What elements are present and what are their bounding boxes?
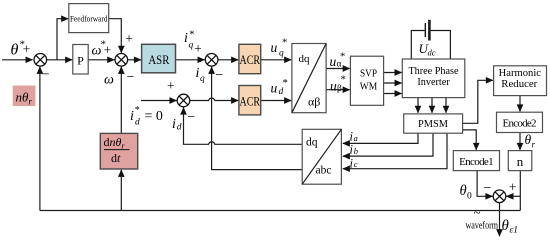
- svg-text:i: i: [184, 31, 188, 46]
- svg-text:ACR: ACR: [240, 93, 261, 108]
- svg-text:q: q: [189, 41, 194, 51]
- svg-text:a: a: [354, 133, 358, 143]
- svg-text:abc: abc: [316, 164, 332, 176]
- svg-text:dq: dq: [306, 137, 318, 149]
- svg-text:u: u: [330, 54, 337, 69]
- svg-text:θ: θ: [502, 218, 510, 234]
- svg-text:Inverter: Inverter: [417, 77, 450, 88]
- svg-text:= 0: = 0: [145, 109, 163, 124]
- svg-text:−: −: [484, 181, 492, 196]
- svg-text:WM: WM: [360, 80, 378, 92]
- svg-text:ω: ω: [104, 73, 114, 88]
- svg-text:*: *: [282, 38, 287, 49]
- svg-text:PMSM: PMSM: [418, 118, 448, 130]
- svg-text:SVP: SVP: [360, 68, 377, 80]
- svg-text:+: +: [167, 78, 175, 93]
- svg-text:Feedforward: Feedforward: [70, 13, 108, 23]
- svg-text:P: P: [77, 53, 84, 67]
- svg-text:−: −: [127, 70, 135, 85]
- svg-text:αβ: αβ: [308, 95, 320, 109]
- svg-text:ACR: ACR: [240, 52, 261, 67]
- svg-text:u: u: [271, 40, 278, 55]
- svg-text:i: i: [196, 66, 200, 81]
- svg-text:*: *: [135, 105, 140, 116]
- svg-text:ASR: ASR: [148, 52, 169, 67]
- svg-text:−: −: [215, 68, 223, 83]
- svg-text:dq: dq: [299, 53, 311, 65]
- svg-text:ε1: ε1: [510, 225, 519, 235]
- svg-text:d: d: [135, 118, 140, 128]
- svg-text:r: r: [532, 140, 536, 150]
- svg-text:n: n: [517, 154, 524, 169]
- svg-text:β: β: [337, 84, 342, 94]
- svg-text:q: q: [279, 49, 284, 59]
- svg-text:θ: θ: [460, 183, 467, 199]
- svg-text:0: 0: [467, 192, 472, 202]
- svg-text:*: *: [340, 52, 345, 63]
- svg-text:i: i: [172, 117, 176, 132]
- svg-text:θ: θ: [11, 42, 19, 59]
- svg-text:−: −: [187, 110, 195, 125]
- svg-text:+: +: [509, 181, 517, 196]
- svg-text:Reducer: Reducer: [501, 78, 537, 90]
- svg-text:+: +: [125, 31, 133, 46]
- svg-text:d: d: [177, 122, 182, 132]
- svg-text:+: +: [104, 42, 112, 57]
- svg-text:+: +: [23, 41, 31, 56]
- svg-text:+: +: [194, 41, 202, 56]
- svg-text:Encode2: Encode2: [503, 117, 537, 129]
- svg-text:u: u: [330, 79, 337, 94]
- svg-text:Three Phase: Three Phase: [408, 66, 459, 77]
- svg-text:~: ~: [474, 205, 481, 220]
- svg-text:c: c: [354, 159, 358, 169]
- svg-text:*: *: [341, 75, 346, 86]
- svg-text:b: b: [354, 146, 358, 156]
- svg-text:−: −: [42, 67, 50, 82]
- svg-text:θ: θ: [525, 132, 532, 147]
- svg-text:waveform: waveform: [466, 220, 499, 231]
- svg-text:dc: dc: [428, 48, 436, 58]
- svg-text:u: u: [271, 81, 278, 96]
- svg-text:q: q: [200, 74, 205, 84]
- svg-text:*: *: [283, 78, 288, 89]
- svg-text:dt: dt: [111, 151, 121, 165]
- svg-text:i: i: [130, 109, 134, 124]
- svg-text:*: *: [189, 30, 194, 41]
- svg-text:Encode1: Encode1: [459, 156, 494, 168]
